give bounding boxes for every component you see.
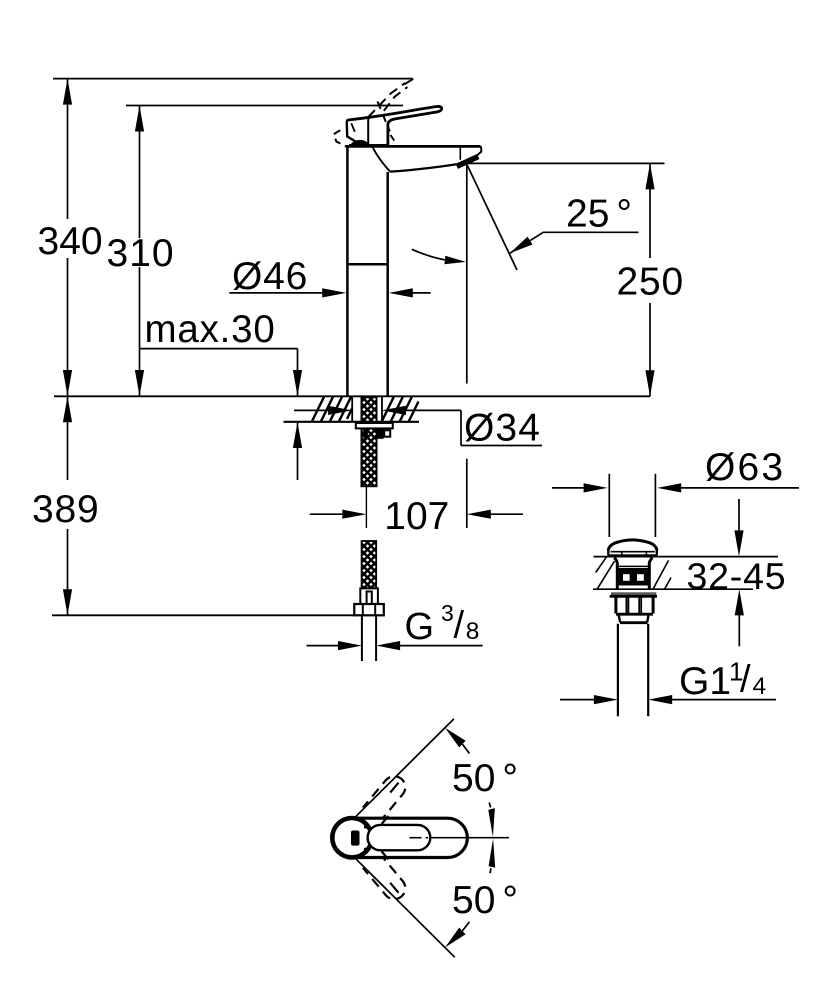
basin bottom line	[593, 588, 753, 590]
hole edges	[351, 397, 353, 422]
flange line	[610, 595, 657, 598]
svg-text:G: G	[405, 606, 435, 648]
dim dia46 arrowheads	[322, 288, 346, 297]
reducer	[619, 615, 621, 622]
handle pivot dark wedge	[350, 141, 370, 147]
dim max.30 lines	[140, 348, 298, 350]
raised handle upper edge	[368, 83, 405, 117]
outer lever	[358, 818, 467, 857]
dashed lever rotated down	[363, 854, 405, 900]
right clamp tab	[376, 428, 383, 438]
spout top line	[346, 145, 481, 148]
neck curve	[373, 147, 391, 172]
handle back edge	[347, 120, 360, 144]
hatch right	[382, 397, 394, 422]
dim 310 extension line	[126, 105, 403, 107]
50 deg lower line	[356, 859, 455, 957]
svg-text:32-45: 32-45	[687, 555, 787, 597]
hatch left	[312, 397, 324, 422]
washer plate	[356, 423, 393, 428]
svg-text:310: 310	[107, 232, 175, 275]
dim 340 extension top line	[53, 78, 413, 80]
vertical stream reference line	[466, 164, 468, 383]
centreline upper tick arrow	[488, 808, 495, 837]
raised handle tip tick	[405, 79, 414, 84]
swivel curved arrow	[412, 249, 459, 261]
rod centre line	[365, 486, 367, 528]
junction dots	[364, 825, 368, 829]
raised handle hidden base corner	[334, 130, 346, 146]
dim 340 line	[67, 79, 69, 219]
svg-text:389: 389	[32, 488, 99, 531]
basin top line	[594, 556, 779, 558]
drain pipe	[617, 624, 619, 717]
svg-text:50°: 50°	[452, 879, 518, 922]
centre line	[410, 837, 510, 839]
body joint line	[347, 263, 387, 266]
slanted stream line	[467, 164, 517, 270]
swivel arrowhead	[445, 256, 466, 264]
50 deg upper line	[356, 719, 454, 816]
handle lever outline	[348, 106, 442, 146]
25 deg leader	[510, 232, 639, 253]
svg-text:Ø63: Ø63	[705, 446, 785, 489]
svg-text:Ø34: Ø34	[464, 406, 541, 449]
dim G3/8 arrowheads	[338, 641, 362, 650]
hose braided section	[362, 541, 377, 588]
dim dia63 arrowheads	[584, 483, 608, 492]
svg-text:/: /	[454, 605, 465, 647]
hose-end reference line	[52, 614, 355, 616]
svg-text:3: 3	[441, 600, 454, 626]
svg-text:8: 8	[466, 618, 480, 645]
svg-text:max.30: max.30	[145, 308, 276, 351]
cap dome	[608, 540, 657, 550]
body left edge	[346, 146, 349, 395]
spout end face edge	[459, 147, 461, 160]
knob circle	[332, 818, 371, 857]
raised handle lower corner dash	[391, 135, 395, 141]
dim dia34 arrowheads	[328, 406, 352, 415]
drain body neck	[614, 558, 617, 590]
arrowheads for left dims	[63, 79, 302, 616]
upper 50 deg arrowhead	[445, 728, 466, 748]
svg-text:25°: 25°	[566, 193, 632, 236]
centreline lower tick arrow	[489, 839, 496, 868]
handle base front edge	[367, 117, 369, 146]
clamp hook window	[384, 430, 390, 436]
dashed lever rotated up	[363, 776, 405, 822]
basin hatch	[596, 557, 671, 589]
countertop bottom line	[284, 421, 420, 423]
dim 389 line	[67, 396, 69, 480]
left clamp tab	[363, 428, 368, 438]
cap rim thick bottom	[607, 554, 657, 557]
dim 107 arrowheads	[342, 510, 366, 519]
svg-text:4: 4	[753, 673, 767, 700]
svg-text:/: /	[740, 659, 751, 701]
locknut	[616, 596, 653, 716]
spout underside	[390, 164, 456, 171]
svg-text:107: 107	[384, 495, 449, 538]
hose end pipe	[361, 615, 363, 661]
lower 50 deg arrowhead	[445, 928, 466, 948]
dim 32-45 arrowheads	[734, 530, 743, 556]
inner lever outline	[368, 825, 431, 850]
washer band	[611, 592, 656, 595]
svg-text:50°: 50°	[452, 757, 518, 800]
raised handle front face	[378, 102, 390, 132]
body right edge	[386, 172, 389, 396]
threaded rod	[361, 397, 376, 486]
spout tip face	[468, 146, 481, 163]
drain body windows	[619, 571, 648, 584]
hose connector	[360, 588, 378, 604]
svg-text:250: 250	[617, 261, 684, 304]
dim G1 1/4 arrowheads	[594, 695, 618, 704]
aerator band	[457, 157, 478, 167]
dim 310 line	[139, 106, 141, 239]
svg-text:G1: G1	[679, 660, 731, 703]
svg-text:340: 340	[38, 220, 103, 263]
handle base inner tick	[351, 123, 355, 132]
dashed lever edge dashes over lever	[382, 816, 389, 824]
raised handle lower edge	[384, 87, 408, 111]
G3/8 dim arrows	[307, 645, 341, 647]
hose nut	[354, 604, 384, 615]
dim 250 arrowheads	[645, 163, 654, 189]
svg-text:Ø46: Ø46	[232, 255, 308, 298]
cartridge mark	[351, 831, 360, 846]
25 deg leader arrowhead	[510, 237, 533, 254]
